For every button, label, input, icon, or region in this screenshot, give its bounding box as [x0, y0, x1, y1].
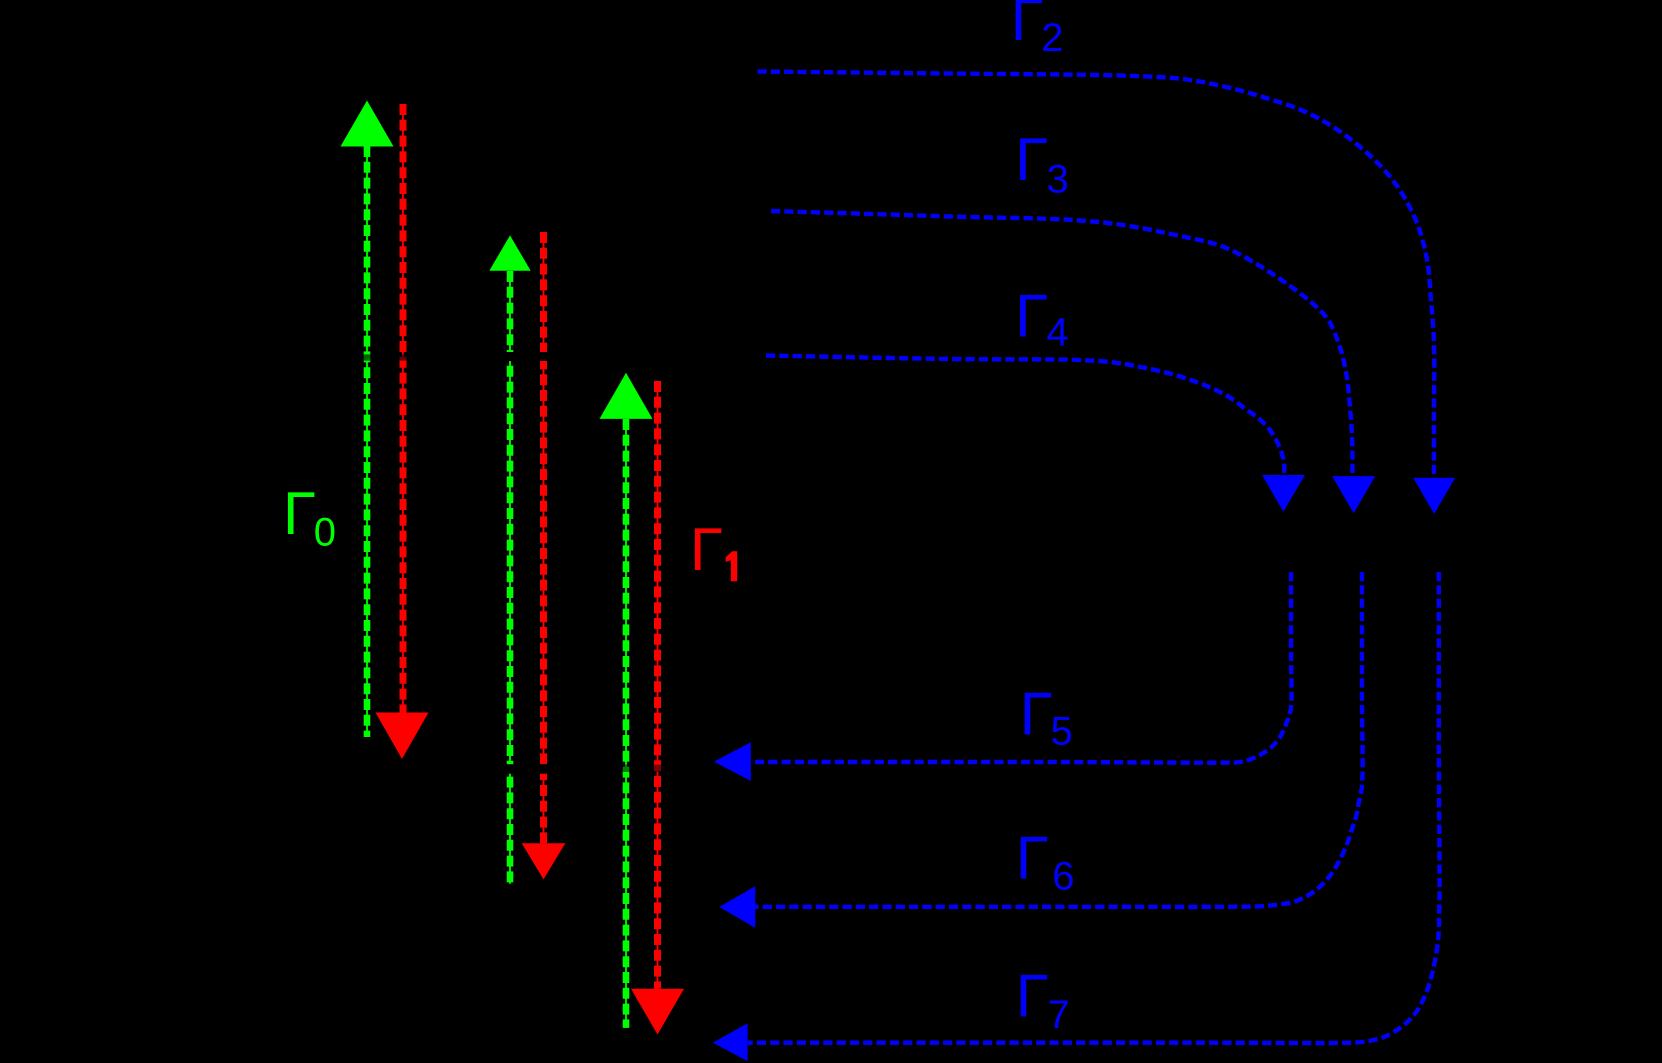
- curve Gamma6: blue dashed path: [755, 572, 1362, 907]
- arrow R1b: red down arrow 2 thin underlay: [543, 232, 545, 843]
- svg-text:Γ: Γ: [283, 480, 316, 547]
- arrow R1c: red down arrow 3 thick dashes: [654, 381, 661, 989]
- level-line gap cover lower (black level crossing pair 2): [480, 764, 572, 774]
- curve Gamma3: blue down head: [1332, 476, 1375, 513]
- svg-text:7: 7: [1048, 993, 1070, 1037]
- curve Gamma6: blue left head: [719, 886, 755, 928]
- svg-text:Γ: Γ: [1020, 681, 1053, 748]
- curve Gamma4: blue dashed path: [766, 356, 1284, 475]
- arrow G0c: green up arrow 3 thin underlay: [625, 419, 627, 1028]
- svg-text:5: 5: [1051, 710, 1073, 754]
- svg-text:Γ: Γ: [1011, 0, 1044, 53]
- svg-text:Γ: Γ: [1016, 824, 1049, 891]
- arrow G0a: green up arrow 1 thin underlay: [366, 146, 368, 737]
- arrow R1a: red down arrow 1 thin underlay: [402, 104, 404, 713]
- arrow R1a: red down arrow 1 head: [376, 713, 429, 760]
- curve Gamma5: blue left head: [714, 742, 751, 781]
- level-line dim cover pair 1 (black level crossing): [361, 354, 409, 360]
- arrow R1b: red down arrow 2 thick dashes: [540, 232, 547, 843]
- arrow G0b: green up arrow 2 thin underlay: [509, 271, 511, 884]
- svg-text:3: 3: [1047, 158, 1069, 202]
- arrow R1c: red down arrow 3 thin underlay: [657, 381, 659, 989]
- arrow G0b: green up arrow 2 thick dashes: [507, 271, 514, 884]
- curve Gamma2: blue dashed path: [758, 72, 1435, 478]
- arrow G0a: green up arrow 1 thick dashes: [364, 146, 371, 737]
- arrow G0b: green up arrow 2 head: [489, 235, 530, 270]
- svg-text:0: 0: [314, 511, 336, 555]
- arrow R1b: red down arrow 2 head: [522, 843, 566, 879]
- svg-text:Γ: Γ: [1015, 126, 1048, 193]
- curve Gamma7: blue left head: [713, 1023, 748, 1061]
- curve Gamma3: blue dashed path: [771, 211, 1353, 476]
- curve Gamma4: blue down head: [1262, 475, 1305, 512]
- svg-text:2: 2: [1041, 16, 1063, 60]
- curve Gamma7: blue dashed path: [748, 572, 1440, 1043]
- arrow R1c: red down arrow 3 head: [631, 989, 684, 1035]
- arrow G0c: green up arrow 3 head: [600, 373, 653, 419]
- svg-text:4: 4: [1047, 311, 1069, 355]
- curve Gamma2: blue down head: [1413, 478, 1455, 514]
- svg-text:Γ: Γ: [1015, 282, 1048, 349]
- arrow G0a: green up arrow 1 head: [341, 101, 394, 147]
- level-line gap cover upper (black level crossing pair 2): [480, 352, 572, 361]
- curve Gamma5: blue dashed path: [751, 572, 1292, 763]
- arrow G0c: green up arrow 3 thick dashes: [623, 419, 630, 1028]
- svg-text:6: 6: [1052, 855, 1074, 899]
- level-line dim cover pair 3 (black level crossing): [620, 765, 664, 772]
- svg-text:Γ: Γ: [1016, 963, 1049, 1030]
- svg-text:Γ: Γ: [690, 516, 723, 583]
- arrow R1a: red down arrow 1 thick dashes: [400, 104, 407, 713]
